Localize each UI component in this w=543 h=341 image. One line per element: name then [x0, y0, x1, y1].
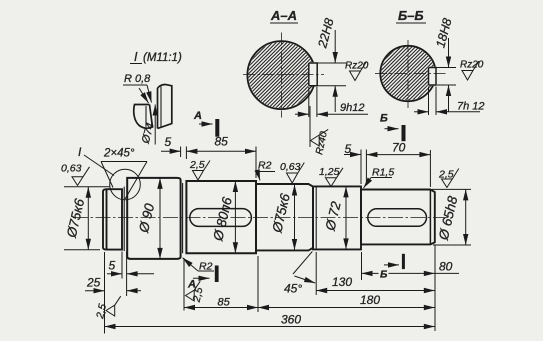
dim 9h12 extension lines — [308, 87, 310, 117]
dim 18H8 arrows — [448, 38, 450, 68]
svg-text:70: 70 — [392, 141, 406, 155]
svg-text:25: 25 — [86, 276, 101, 290]
dim Ø75k6 second: dim line — [294, 185, 296, 251]
dim 25 arrows — [85, 290, 105, 292]
shaft section 6 Ø65h8 — [361, 190, 435, 245]
svg-text:130: 130 — [332, 275, 352, 289]
section A-A circle — [247, 41, 315, 109]
shaft section 4 Ø75k6 second — [256, 184, 313, 250]
svg-text:2×45°: 2×45° — [103, 148, 135, 160]
svg-text:Б–Б: Б–Б — [398, 8, 424, 23]
svg-text:А–А: А–А — [270, 8, 297, 23]
bottom dim 5 arrows — [107, 273, 122, 275]
dim Ø90: dim line — [159, 178, 161, 259]
section Б-Б circle — [380, 46, 435, 101]
top dim 85: dim line — [186, 150, 256, 152]
hatching A-A — [219, 13, 342, 136]
detail groove left piece — [134, 105, 153, 129]
svg-text:1,25: 1,25 — [319, 166, 340, 178]
svg-text:Б: Б — [380, 113, 388, 125]
relief groove 3 — [315, 186, 317, 249]
dim Ø75k6 left: extension lines — [64, 186, 110, 188]
shaft section 5 Ø72 — [313, 186, 361, 249]
svg-text:(М11:1): (М11:1) — [143, 52, 182, 64]
svg-text:R 0,8: R 0,8 — [124, 73, 151, 85]
roughness 2,5 rotated at A bottom — [186, 281, 201, 301]
dim 7h12 arrows — [414, 111, 429, 113]
bottom dim 5: ext lines — [121, 252, 123, 279]
svg-text:45°: 45° — [284, 282, 302, 296]
svg-text:360: 360 — [281, 313, 301, 327]
dim 70: dim line — [366, 154, 430, 156]
relief groove 2 (Ø80 start) — [182, 183, 184, 253]
svg-text:5: 5 — [345, 142, 352, 156]
dim Ø65h8: dim line — [465, 189, 467, 245]
svg-text:0,63: 0,63 — [61, 163, 82, 175]
centerline A-A horizontal — [243, 74, 324, 76]
top right dim 5 arrow — [344, 154, 361, 156]
detail groove right piece — [158, 85, 172, 129]
shaft section 1 Ø75k6 left journal — [103, 189, 122, 249]
shaft section 2 Ø90 — [127, 178, 180, 259]
svg-text:I: I — [134, 50, 138, 64]
dim 130: ext line — [315, 252, 317, 295]
svg-text:5: 5 — [109, 259, 116, 273]
top dim 5 (groove at Ø90/Ø80): ext lines — [180, 147, 182, 158]
keyway outline A-A — [309, 63, 317, 86]
dim 80 (Б line): ext line — [361, 252, 363, 280]
svg-text:180: 180 — [360, 293, 380, 307]
section plane Б (bottom): arrow and bar — [384, 264, 399, 266]
roughness Rz40 rotated on groove — [309, 106, 311, 147]
relief groove 1 — [123, 187, 125, 251]
svg-text:7h 12: 7h 12 — [457, 101, 485, 113]
dim 130: dim line — [316, 290, 435, 292]
svg-text:85: 85 — [218, 297, 231, 309]
bottom dim 85: ext lines — [183, 258, 185, 311]
centerline Б-Б vertical — [407, 40, 409, 108]
dim 180: dim line — [258, 307, 435, 309]
centerline Б-Б horizontal — [375, 73, 446, 75]
dim line Ø74 — [154, 105, 156, 145]
top dim 5 arrow — [161, 150, 181, 152]
dim 80: dim line with Б letter — [362, 272, 379, 274]
bottom dim 85: dim line — [184, 307, 258, 309]
shaft section 3 Ø80п6 — [186, 181, 256, 253]
svg-text:5: 5 — [165, 135, 172, 149]
dim Ø75k6 left: dim line — [87, 187, 89, 250]
keyway cutout Б-Б — [428, 67, 437, 86]
centerline main — [73, 217, 448, 219]
svg-text:80: 80 — [439, 260, 453, 274]
svg-text:Б: Б — [380, 269, 388, 281]
dim Ø65h8: extension lines — [432, 188, 471, 190]
keyway slot 1 — [190, 209, 252, 227]
leader R0,8 arrows — [147, 85, 152, 103]
svg-text:R1,5: R1,5 — [372, 167, 394, 179]
hatching Б-Б — [357, 23, 458, 124]
svg-text:85: 85 — [215, 135, 229, 149]
keyway slot 2 — [368, 209, 427, 227]
centerline A-A vertical — [280, 33, 282, 118]
dim 25: ext line left — [104, 252, 106, 334]
detail circle I on main view — [110, 169, 141, 200]
dim 22H8 arrows — [334, 30, 336, 63]
dim 360: dim line — [105, 326, 435, 328]
dim 18H8 extension lines — [430, 67, 456, 69]
chamfer line right end — [429, 190, 431, 245]
svg-text:R2: R2 — [258, 160, 272, 172]
svg-text:Rz20: Rz20 — [345, 61, 369, 72]
svg-text:0,63: 0,63 — [280, 161, 301, 173]
svg-text:2,5: 2,5 — [189, 159, 205, 171]
keyway cutout A-A — [308, 62, 318, 86]
top right dim 5: ext lines — [360, 150, 362, 185]
chamfer 45 leader — [293, 252, 312, 275]
svg-text:А: А — [193, 110, 202, 122]
svg-text:Rz20: Rz20 — [460, 60, 484, 71]
dim Ø80п6: dim line — [234, 181, 236, 253]
dim 9h12 arrows — [295, 113, 309, 115]
right ext line for 80/130/180/360 — [434, 244, 436, 331]
roughness 2,5 rotated on ext line — [106, 296, 121, 316]
dim 7h12 extension lines — [428, 87, 430, 116]
dim 22H8 extension lines — [310, 62, 346, 64]
svg-text:9h12: 9h12 — [340, 102, 364, 114]
keyway outline Б-Б — [429, 68, 437, 86]
dim Ø72: dim line — [345, 186, 347, 249]
